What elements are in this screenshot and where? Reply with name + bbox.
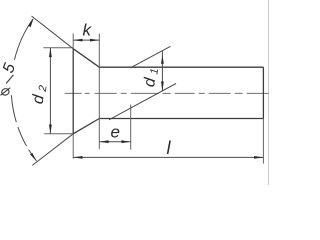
shank top edge [99,66,263,68]
l arrow right [254,156,263,159]
cone bottom edge [73,119,99,134]
arc arrow top [28,18,34,27]
shank right edge [262,67,264,118]
head face extension bottom (l) [72,134,74,159]
angle label: glyph 5 [0,61,19,75]
d2 arrow top [49,48,52,57]
l arrow left [73,156,82,159]
d1 oblique extension bottom [109,84,176,120]
k dimension line [73,39,99,41]
label d2 [30,84,50,105]
d1 dimension line [161,51,163,91]
d2 arrow bottom [49,125,52,134]
angle dimension arc [11,18,36,161]
e dimension line [99,141,130,143]
label d1 [141,67,161,88]
e arrow left [99,140,108,143]
arc arrow bottom [30,153,36,161]
angle label: glyph phi ellipse [1,88,10,97]
extension line k right / e left [98,34,100,150]
k arrow right [90,39,99,42]
cone bottom edge extension (angle leg) [32,134,73,166]
l dimension line [73,156,263,158]
cone top edge extension (angle leg) [32,16,74,49]
extension line right (l) [262,119,264,164]
e arrow right [121,140,130,143]
d2 extension bottom [44,133,73,135]
shank bottom edge [99,118,263,120]
head face extension top (k) [72,34,74,49]
k arrow left [73,39,82,42]
cone top edge [73,49,99,67]
extension line e right (apex plane) [130,105,132,150]
d1 arrow top [161,55,164,64]
head face [72,49,74,134]
centerline [65,92,269,94]
d1 oblique extension top [131,46,171,68]
angle label: phi slash [1,88,11,96]
d2 dimension line [49,48,51,134]
d1 arrow bottom [161,82,164,91]
d2 extension top [43,47,73,49]
right scan border [267,0,269,185]
angle label: glyph 7 (slash) [6,75,13,84]
svg-text:e: e [111,123,120,142]
